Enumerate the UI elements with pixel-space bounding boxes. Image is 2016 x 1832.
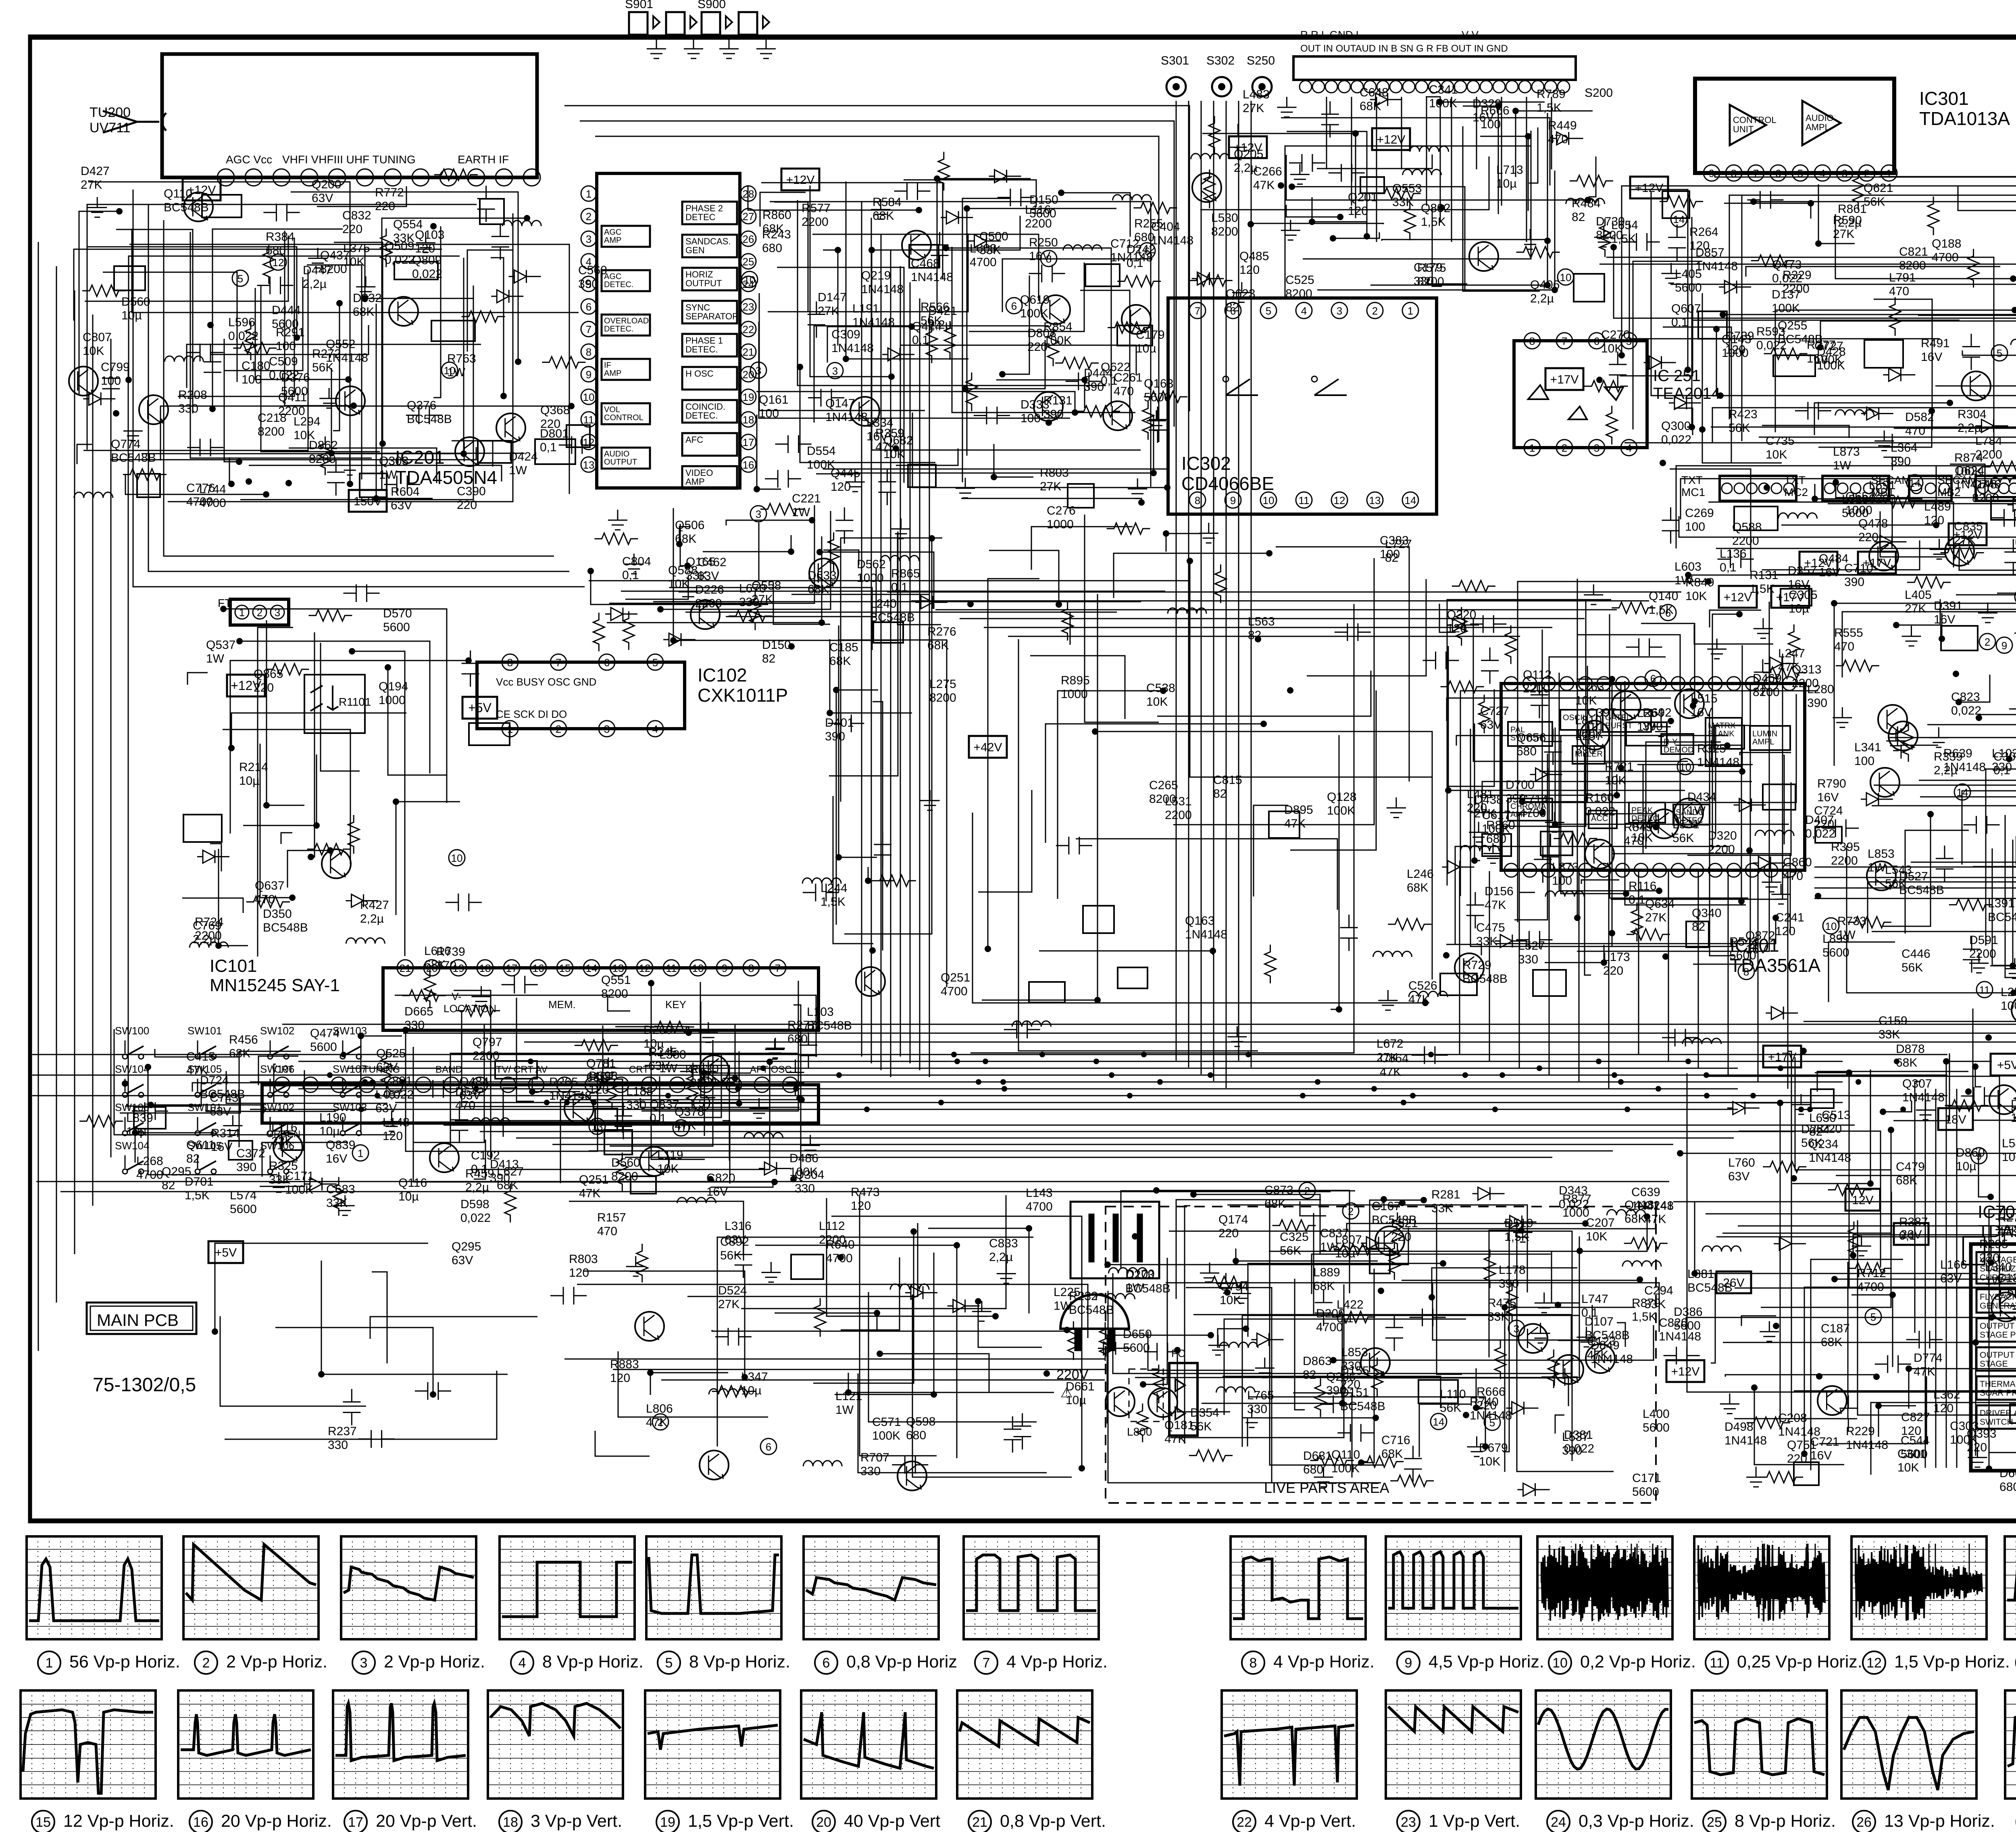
svg-text:8200: 8200 — [309, 452, 336, 466]
svg-text:L563: L563 — [1248, 615, 1275, 628]
svg-text:470: 470 — [1114, 385, 1134, 398]
svg-text:R729: R729 — [1462, 959, 1491, 972]
svg-text:EARTH IF: EARTH IF — [458, 153, 509, 166]
svg-text:5600: 5600 — [310, 1040, 337, 1054]
svg-text:L244: L244 — [821, 882, 848, 895]
svg-text:1N4148: 1N4148 — [861, 283, 904, 296]
svg-text:68K: 68K — [1313, 1280, 1335, 1293]
svg-text:3: 3 — [1514, 1323, 1519, 1335]
svg-text:8200: 8200 — [929, 691, 956, 704]
svg-text:R1101: R1101 — [339, 696, 371, 708]
svg-text:R860: R860 — [762, 208, 791, 222]
svg-text:C179: C179 — [1136, 328, 1165, 342]
svg-text:16V: 16V — [1817, 791, 1839, 804]
svg-text:0,1: 0,1 — [1581, 1306, 1598, 1319]
svg-text:SW100: SW100 — [115, 1101, 149, 1113]
svg-text:Q506: Q506 — [675, 519, 704, 532]
svg-text:27: 27 — [743, 211, 754, 223]
svg-text:D832: D832 — [353, 292, 382, 305]
svg-text:IC 251: IC 251 — [1653, 367, 1701, 385]
svg-text:5: 5 — [652, 657, 658, 669]
svg-text:Vᴄᴄ BUSY OSC GND: Vᴄᴄ BUSY OSC GND — [496, 676, 596, 688]
svg-text:2200: 2200 — [802, 215, 829, 229]
svg-text:47K: 47K — [1284, 817, 1306, 830]
svg-text:100K: 100K — [1772, 302, 1800, 315]
svg-text:4: 4 — [652, 723, 658, 735]
svg-text:L727: L727 — [1385, 538, 1412, 551]
svg-text:Q300: Q300 — [1661, 419, 1691, 433]
svg-text:2200: 2200 — [473, 1049, 500, 1063]
svg-text:R707: R707 — [860, 1451, 889, 1464]
svg-text:3: 3 — [360, 1655, 368, 1671]
svg-text:D444: D444 — [1084, 367, 1113, 380]
svg-text:UNIT: UNIT — [1733, 124, 1754, 134]
svg-text:L800: L800 — [1127, 1426, 1152, 1438]
svg-text:TXT: TXT — [1681, 474, 1703, 486]
svg-text:R849: R849 — [1685, 576, 1714, 589]
svg-text:IC301: IC301 — [1919, 88, 1969, 109]
svg-text:10: 10 — [1680, 761, 1691, 773]
svg-text:10µ: 10µ — [1136, 342, 1156, 355]
svg-text:10: 10 — [1552, 1655, 1568, 1671]
svg-text:100: 100 — [1854, 754, 1874, 768]
svg-text:D350: D350 — [263, 907, 292, 921]
svg-text:68K: 68K — [1360, 100, 1381, 113]
svg-text:DETEC.: DETEC. — [685, 411, 718, 421]
svg-text:63V: 63V — [452, 1254, 473, 1267]
svg-text:C525: C525 — [1285, 273, 1314, 287]
svg-text:L527: L527 — [1518, 939, 1545, 952]
svg-text:390: 390 — [1043, 408, 1064, 421]
svg-text:1000: 1000 — [1845, 504, 1872, 517]
svg-text:C821: C821 — [1899, 245, 1928, 258]
svg-text:Q251: Q251 — [941, 971, 970, 984]
svg-text:63V: 63V — [312, 192, 333, 205]
svg-text:68K: 68K — [1264, 1197, 1286, 1211]
svg-text:R772: R772 — [375, 186, 404, 199]
svg-text:+17V: +17V — [1863, 556, 1891, 570]
svg-text:0,1: 0,1 — [912, 333, 929, 347]
svg-text:220V: 220V — [1056, 1367, 1089, 1382]
svg-text:C832: C832 — [342, 209, 371, 222]
svg-text:R484: R484 — [1572, 197, 1601, 210]
svg-text:+12V: +12V — [1671, 1365, 1700, 1378]
svg-text:680: 680 — [1303, 1463, 1323, 1476]
svg-text:220: 220 — [342, 223, 362, 236]
svg-text:C716: C716 — [1381, 1434, 1410, 1447]
svg-text:MB1: MB1 — [1871, 486, 1894, 498]
svg-text:C265: C265 — [1149, 779, 1178, 792]
svg-text:220: 220 — [375, 200, 395, 213]
svg-text:D386: D386 — [1674, 1305, 1703, 1319]
svg-text:2: 2 — [1348, 1205, 1354, 1217]
svg-text:C892: C892 — [720, 1235, 749, 1248]
svg-text:8: 8 — [1529, 335, 1535, 347]
svg-text:OUTPUT: OUTPUT — [604, 458, 637, 467]
svg-text:SOAR PROTEC.: SOAR PROTEC. — [1980, 1388, 2016, 1398]
svg-text:R721: R721 — [1605, 760, 1634, 773]
svg-text:C261: C261 — [1114, 371, 1143, 384]
svg-text:SW104: SW104 — [115, 1140, 149, 1152]
svg-text:1,5K: 1,5K — [821, 895, 846, 909]
svg-text:GREEN: GREEN — [266, 1129, 300, 1140]
svg-text:Q445: Q445 — [831, 467, 860, 480]
svg-text:16: 16 — [533, 962, 544, 974]
svg-text:68K: 68K — [1381, 1447, 1403, 1461]
svg-text:R243: R243 — [762, 228, 791, 241]
svg-text:Q525: Q525 — [376, 1047, 406, 1060]
svg-text:47K: 47K — [646, 1416, 667, 1429]
svg-text:16: 16 — [743, 459, 754, 471]
svg-text:Q797: Q797 — [473, 1036, 502, 1049]
svg-text:BC548B: BC548B — [1988, 911, 2016, 924]
svg-text:5: 5 — [665, 1655, 673, 1671]
svg-text:AMPL: AMPL — [1510, 810, 1532, 819]
svg-text:TXT: TXT — [1784, 474, 1806, 486]
svg-text:68K: 68K — [675, 532, 696, 546]
svg-text:56K: 56K — [1672, 832, 1694, 845]
svg-text:2200: 2200 — [1025, 217, 1052, 230]
svg-text:DRIVER AND: DRIVER AND — [1980, 1409, 2016, 1418]
svg-text:CRT: CRT — [274, 1064, 294, 1075]
svg-text:470: 470 — [1834, 640, 1854, 653]
svg-text:120: 120 — [1239, 263, 1260, 277]
svg-text:47K: 47K — [1408, 993, 1430, 1006]
svg-text:27K: 27K — [718, 1298, 739, 1311]
svg-text:220: 220 — [1467, 801, 1487, 815]
svg-text:BURST: BURST — [1605, 721, 1633, 730]
svg-text:L853: L853 — [1341, 1346, 1368, 1359]
svg-text:AMP: AMP — [685, 477, 705, 487]
svg-text:S900: S900 — [698, 0, 726, 11]
svg-text:SECAM: SECAM — [1871, 474, 1911, 486]
svg-text:L247: L247 — [1778, 647, 1805, 660]
svg-text:1: 1 — [1408, 305, 1413, 317]
svg-text:DETEC: DETEC — [1676, 816, 1703, 825]
svg-text:68K: 68K — [808, 583, 829, 596]
svg-text:2: 2 — [1985, 636, 1990, 648]
svg-text:C276: C276 — [1047, 504, 1076, 517]
svg-text:390: 390 — [1807, 696, 1827, 710]
svg-text:D863: D863 — [1303, 1355, 1332, 1368]
svg-text:1N4148: 1N4148 — [1902, 1091, 1945, 1104]
svg-text:FT: FT — [218, 597, 231, 609]
svg-text:330: 330 — [1518, 953, 1538, 966]
svg-text:2200: 2200 — [819, 1233, 846, 1246]
svg-text:+17V: +17V — [1550, 373, 1579, 386]
svg-text:10K: 10K — [883, 448, 905, 461]
svg-text:L294: L294 — [294, 415, 321, 428]
svg-text:1N4148: 1N4148 — [852, 316, 895, 329]
svg-text:VOLTAGE: VOLTAGE — [1980, 1255, 2016, 1265]
svg-text:26: 26 — [743, 233, 754, 245]
svg-text:OUTPUT: OUTPUT — [1980, 1321, 2015, 1331]
svg-text:0,022: 0,022 — [1951, 704, 1981, 717]
svg-text:C721: C721 — [1810, 1435, 1839, 1449]
svg-text:R329: R329 — [1783, 269, 1812, 282]
svg-text:1000: 1000 — [379, 694, 406, 707]
svg-text:3 Vp-p Vert.: 3 Vp-p Vert. — [531, 1811, 622, 1831]
svg-text:Q418: Q418 — [1624, 1198, 1654, 1212]
svg-text:AFC: AFC — [685, 435, 703, 445]
svg-text:1,5K: 1,5K — [1632, 1310, 1657, 1323]
svg-text:+5V: +5V — [215, 1246, 237, 1259]
svg-text:AGC Vᴄᴄ: AGC Vᴄᴄ — [226, 153, 272, 166]
svg-text:12: 12 — [639, 962, 651, 974]
svg-text:L173: L173 — [1603, 950, 1630, 964]
svg-text:100: 100 — [1020, 412, 1041, 425]
svg-text:470: 470 — [455, 1099, 475, 1112]
svg-text:L178: L178 — [1499, 1263, 1526, 1277]
svg-text:CE SCK DI DO: CE SCK DI DO — [496, 708, 567, 720]
svg-text:56K: 56K — [1440, 1401, 1461, 1415]
svg-text:1,5K: 1,5K — [1649, 603, 1674, 617]
svg-text:680: 680 — [906, 1429, 926, 1442]
svg-text:390: 390 — [1084, 380, 1104, 394]
svg-text:C303: C303 — [1950, 1419, 1979, 1433]
svg-text:390: 390 — [1562, 1444, 1582, 1457]
svg-text:150V: 150V — [354, 495, 382, 508]
svg-text:100: 100 — [1685, 520, 1705, 534]
svg-text:0,1: 0,1 — [1629, 893, 1645, 907]
svg-text:+12V: +12V — [231, 678, 261, 693]
svg-text:22: 22 — [743, 323, 754, 336]
svg-text:R339: R339 — [1934, 750, 1963, 763]
svg-text:MB2: MB2 — [1937, 486, 1961, 498]
svg-text:Q588: Q588 — [1732, 521, 1762, 534]
svg-text:OSCIL: OSCIL — [1563, 713, 1587, 722]
svg-text:D554: D554 — [807, 444, 836, 458]
svg-text:8200: 8200 — [320, 263, 347, 276]
svg-text:MATRX: MATRX — [1708, 721, 1736, 730]
svg-text:BC548B: BC548B — [1340, 1400, 1385, 1413]
svg-text:MC1: MC1 — [1681, 486, 1705, 498]
svg-text:R R L GND L: R R L GND L — [1300, 29, 1362, 41]
svg-text:D700: D700 — [1506, 778, 1535, 792]
svg-text:1N4148: 1N4148 — [1185, 928, 1227, 941]
svg-text:C475: C475 — [1476, 921, 1505, 934]
svg-text:AMP: AMP — [604, 369, 621, 378]
svg-text:R861: R861 — [1838, 202, 1867, 216]
svg-text:12: 12 — [273, 256, 284, 269]
svg-text:R692: R692 — [1643, 706, 1672, 719]
svg-text:330: 330 — [1247, 1403, 1267, 1416]
svg-text:CURRENT SOURCE: CURRENT SOURCE — [1980, 1273, 2016, 1282]
svg-text:17: 17 — [743, 436, 754, 448]
svg-text:16V: 16V — [326, 1152, 347, 1165]
svg-text:AGC: AGC — [604, 272, 621, 281]
svg-text:D320: D320 — [1708, 829, 1737, 842]
svg-text:Q313: Q313 — [1792, 663, 1821, 676]
svg-text:33K: 33K — [1392, 196, 1414, 209]
svg-text:220: 220 — [1477, 1399, 1497, 1412]
svg-text:D631: D631 — [1303, 1449, 1332, 1463]
svg-text:Q128: Q128 — [1327, 790, 1356, 804]
svg-text:SW102: SW102 — [260, 1101, 294, 1113]
svg-text:TV/ CRT AV: TV/ CRT AV — [496, 1064, 548, 1075]
svg-text:SEPARATOR: SEPARATOR — [685, 311, 739, 321]
svg-text:63V: 63V — [375, 1102, 397, 1115]
svg-text:+12V: +12V — [1954, 528, 1982, 542]
svg-text:L121: L121 — [835, 1390, 862, 1403]
svg-text:AUDIO: AUDIO — [1806, 113, 1834, 123]
svg-text:47K: 47K — [1485, 898, 1506, 912]
svg-text:470: 470 — [1889, 285, 1909, 298]
svg-text:4: 4 — [519, 1655, 526, 1671]
svg-text:L747: L747 — [1581, 1292, 1608, 1306]
svg-text:68K: 68K — [927, 639, 949, 652]
svg-text:470: 470 — [1905, 424, 1925, 438]
svg-text:13: 13 — [612, 962, 624, 974]
svg-text:Q295: Q295 — [452, 1240, 481, 1253]
svg-text:Q340: Q340 — [1692, 907, 1721, 920]
svg-text:2,2µ: 2,2µ — [360, 912, 384, 925]
svg-text:D560: D560 — [121, 295, 150, 308]
svg-text:5: 5 — [1626, 335, 1632, 347]
svg-text:680: 680 — [762, 242, 782, 255]
svg-text:8: 8 — [748, 962, 754, 974]
svg-text:18: 18 — [479, 962, 491, 974]
svg-text:5: 5 — [586, 278, 591, 290]
svg-text:100: 100 — [759, 407, 779, 420]
svg-text:7: 7 — [1195, 305, 1200, 317]
svg-text:C807: C807 — [83, 331, 112, 344]
svg-text:10µ: 10µ — [741, 1384, 762, 1397]
svg-text:DETEC.: DETEC. — [685, 344, 718, 354]
svg-text:+12V: +12V — [1724, 591, 1752, 604]
svg-text:220: 220 — [1787, 1452, 1807, 1465]
svg-text:16V: 16V — [1029, 250, 1050, 263]
svg-text:TDA1013A: TDA1013A — [1919, 108, 2010, 129]
svg-text:24: 24 — [1551, 1815, 1566, 1830]
svg-text:1000: 1000 — [1061, 688, 1088, 701]
svg-text:330: 330 — [178, 402, 198, 415]
svg-text:SW101: SW101 — [187, 1025, 222, 1037]
svg-text:1W: 1W — [447, 366, 466, 379]
svg-text:10: 10 — [451, 852, 463, 864]
svg-text:1N4148: 1N4148 — [1846, 1438, 1888, 1452]
svg-text:TDA3561A: TDA3561A — [1730, 955, 1820, 976]
svg-text:1000: 1000 — [1047, 518, 1074, 531]
svg-text:MEM.: MEM. — [548, 998, 576, 1011]
svg-text:8: 8 — [507, 657, 513, 669]
svg-text:10K: 10K — [1586, 1230, 1607, 1243]
svg-text:D582: D582 — [1905, 411, 1934, 424]
svg-text:4700: 4700 — [1857, 1280, 1884, 1294]
svg-text:D354: D354 — [1190, 1406, 1219, 1419]
svg-text:7: 7 — [556, 657, 561, 669]
svg-text:56K: 56K — [921, 314, 942, 327]
svg-text:1,5K: 1,5K — [1421, 215, 1446, 229]
svg-text:L630: L630 — [1809, 1111, 1836, 1125]
svg-text:GATED: GATED — [1605, 713, 1632, 722]
svg-text:IC302: IC302 — [1181, 453, 1231, 474]
svg-text:5600: 5600 — [383, 621, 410, 634]
svg-text:R555: R555 — [1834, 626, 1863, 640]
svg-text:25: 25 — [743, 256, 754, 268]
svg-text:R449: R449 — [1548, 119, 1577, 132]
svg-text:MC2: MC2 — [1784, 486, 1808, 498]
svg-text:2200: 2200 — [1708, 843, 1735, 856]
svg-text:C241: C241 — [1775, 911, 1804, 924]
svg-text:Q621: Q621 — [1864, 181, 1893, 195]
svg-text:8 Vp-p Horiz.: 8 Vp-p Horiz. — [1735, 1811, 1836, 1831]
svg-text:SW105: SW105 — [187, 1140, 222, 1152]
svg-text:120: 120 — [1348, 204, 1368, 218]
svg-text:14: 14 — [1433, 1416, 1445, 1428]
svg-text:+12V: +12V — [1804, 556, 1833, 570]
svg-text:BC548B: BC548B — [1462, 972, 1508, 986]
svg-text:H OSC: H OSC — [685, 369, 714, 379]
svg-text:STAGE: STAGE — [1980, 1359, 2008, 1369]
svg-text:L531: L531 — [1165, 795, 1192, 808]
svg-text:1: 1 — [507, 723, 513, 735]
svg-text:1N4148: 1N4148 — [1151, 234, 1193, 247]
svg-text:100: 100 — [2001, 999, 2016, 1013]
svg-text:2 Vp-p Horiz.: 2 Vp-p Horiz. — [384, 1652, 485, 1672]
svg-text:D343: D343 — [1559, 1184, 1588, 1197]
svg-text:12: 12 — [1334, 494, 1345, 506]
svg-text:L853: L853 — [1868, 847, 1895, 861]
svg-text:R666: R666 — [1477, 1385, 1506, 1398]
svg-text:GEN: GEN — [685, 245, 705, 255]
svg-text:L280: L280 — [1807, 683, 1834, 696]
svg-text:19: 19 — [660, 1815, 675, 1830]
svg-text:Q537: Q537 — [206, 638, 235, 652]
svg-text:S250: S250 — [1247, 54, 1275, 67]
svg-text:10K: 10K — [1146, 695, 1168, 709]
svg-text:63V: 63V — [1480, 718, 1502, 732]
svg-text:7: 7 — [983, 1655, 990, 1671]
svg-text:82: 82 — [1385, 551, 1398, 565]
svg-text:AFT OSC: AFT OSC — [750, 1064, 792, 1075]
svg-text:0,022: 0,022 — [385, 253, 415, 267]
svg-text:D427: D427 — [81, 165, 110, 178]
svg-text:R229: R229 — [1846, 1425, 1875, 1438]
svg-text:C468: C468 — [911, 257, 940, 270]
svg-text:C735: C735 — [1766, 434, 1795, 448]
svg-text:Q368: Q368 — [540, 404, 570, 417]
svg-text:1000: 1000 — [857, 571, 884, 585]
svg-text:C724: C724 — [1814, 804, 1843, 817]
svg-text:5: 5 — [1797, 167, 1803, 179]
svg-text:2: 2 — [586, 211, 591, 223]
svg-text:9: 9 — [1405, 1655, 1412, 1671]
svg-text:2: 2 — [1304, 1185, 1310, 1197]
svg-text:R325: R325 — [1697, 742, 1726, 755]
svg-text:L574: L574 — [230, 1189, 257, 1202]
svg-text:8200: 8200 — [1753, 686, 1780, 699]
svg-text:C301: C301 — [1897, 1447, 1926, 1461]
svg-text:SW102: SW102 — [260, 1025, 294, 1037]
svg-text:L246: L246 — [1407, 867, 1434, 881]
svg-text:C309: C309 — [831, 328, 860, 341]
svg-text:5: 5 — [1997, 347, 2002, 359]
svg-text:D434: D434 — [1687, 790, 1716, 804]
svg-text:82: 82 — [1572, 211, 1585, 224]
svg-text:Q165: Q165 — [686, 555, 715, 569]
svg-text:D679: D679 — [1479, 1441, 1508, 1455]
svg-text:C804: C804 — [622, 555, 651, 568]
svg-text:12: 12 — [1866, 1655, 1882, 1671]
svg-text:R666: R666 — [1481, 104, 1510, 117]
svg-text:C526: C526 — [1408, 979, 1437, 992]
svg-text:Q839: Q839 — [326, 1138, 355, 1152]
svg-text:82: 82 — [1303, 1368, 1316, 1382]
svg-text:IF: IF — [604, 361, 611, 370]
svg-text:L110: L110 — [1440, 1388, 1466, 1401]
svg-text:47K: 47K — [579, 1187, 600, 1200]
